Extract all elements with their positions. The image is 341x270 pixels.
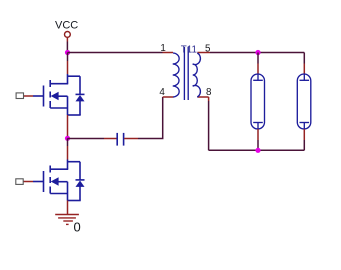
node C junction dot (top rail / lamp1) bbox=[255, 50, 260, 55]
lamp DS1 body bbox=[251, 74, 265, 129]
transformer T11 secondary winding bbox=[193, 53, 201, 97]
wire pin8 down bbox=[208, 97, 210, 101]
svg-text:0: 0 bbox=[74, 220, 81, 235]
wire node A down to Q1 drain bbox=[67, 53, 69, 62]
svg-text:8: 8 bbox=[206, 87, 212, 98]
capacitor C1 left pin bbox=[104, 138, 117, 140]
transformer T11 pin 8 bbox=[197, 96, 208, 98]
port LO gate pin bbox=[24, 181, 34, 183]
svg-text:VCC: VCC bbox=[55, 20, 78, 32]
capacitor C1 plates bbox=[117, 133, 123, 146]
node D junction dot (bottom rail / lamp1) bbox=[255, 148, 260, 153]
transformer T11 core lines bbox=[184, 47, 188, 100]
transistor Q2 body diode triangle bbox=[76, 181, 85, 187]
port HI gate pin bbox=[24, 95, 33, 97]
lamp DS1 bottom pin bbox=[257, 129, 259, 140]
transistor Q1 (upper NMOS) drain pin bbox=[67, 61, 69, 74]
transistor Q2 arrow bbox=[51, 177, 59, 185]
svg-text:T11: T11 bbox=[181, 45, 197, 56]
transformer T11 pin 5 bbox=[197, 52, 210, 54]
node A junction dot (VCC rail / primary pin1 / Q1 drain) bbox=[65, 50, 70, 55]
wire node C down to lamp1 bbox=[257, 53, 259, 64]
transistor Q1 source pin bbox=[67, 115, 69, 136]
wire node B to capacitor bbox=[68, 138, 105, 140]
transformer T11 primary winding bbox=[173, 53, 179, 97]
VCC power symbol circle bbox=[65, 32, 71, 38]
transformer T11 pin 4 bbox=[163, 96, 174, 98]
transistor Q1 (upper NMOS) body bbox=[33, 74, 85, 115]
lamp DS2 bottom pin bbox=[303, 129, 305, 140]
ground 0 stem bbox=[67, 201, 69, 215]
wire top rail down to lamp2 bbox=[303, 53, 305, 64]
wire node A to transformer pin1 bbox=[68, 52, 163, 54]
port HI square bbox=[16, 93, 23, 99]
transformer T11 pin 1 bbox=[163, 52, 174, 54]
transistor Q1 arrow bbox=[51, 92, 59, 100]
wire node B down to Q2 drain bbox=[67, 138, 69, 146]
ground 0 bars bbox=[55, 215, 79, 225]
lamp DS2 top pin bbox=[303, 64, 305, 75]
svg-text:4: 4 bbox=[159, 87, 165, 98]
wire Q1 source to node B bbox=[67, 136, 69, 138]
capacitor C1 right pin bbox=[124, 138, 138, 140]
wire capacitor to transformer pin4 bbox=[138, 97, 163, 139]
wire VCC stem bbox=[66, 37, 68, 41]
lamp DS2 body bbox=[297, 74, 311, 129]
lamp DS1 top pin bbox=[257, 64, 259, 75]
transistor Q2 (lower NMOS) drain pin bbox=[67, 146, 69, 160]
wire lamp1 bottom to node D bbox=[257, 140, 259, 150]
wire bottom rail bbox=[209, 149, 305, 151]
svg-text:1: 1 bbox=[160, 43, 165, 54]
transistor Q2 (lower NMOS) body bbox=[33, 160, 85, 201]
port LO square bbox=[16, 179, 23, 185]
wire lamp2 bottom to bottom rail bbox=[303, 140, 305, 150]
node B junction dot (half-bridge midpoint) bbox=[65, 136, 70, 141]
wire pin5 to lamps top rail bbox=[210, 52, 304, 54]
transistor Q1 body diode triangle bbox=[76, 95, 85, 101]
